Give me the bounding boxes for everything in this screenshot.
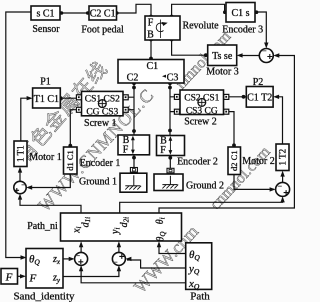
wire F to sand (18, 275, 21, 277)
svg-text:Encoder 2: Encoder 2 (177, 157, 218, 168)
wire motor1 to T1C1 (21, 98, 28, 141)
svg-text:Encoder 3: Encoder 3 (222, 25, 263, 36)
wire sensor feedback left edge (6, 12, 31, 258)
wire box C3 net down branch2 (170, 83, 175, 136)
svg-text:C2: C2 (127, 73, 139, 84)
wire screw1 CG to encoder1 (70, 110, 76, 146)
svg-text:C3: C3 (167, 73, 179, 84)
svg-text:P1: P1 (40, 77, 51, 88)
summing junction motor2 (276, 182, 290, 196)
svg-text:Screw 1: Screw 1 (84, 118, 117, 129)
svg-text:s C1: s C1 (36, 9, 54, 20)
svg-text:F: F (148, 18, 154, 29)
block motor 3 (206, 45, 239, 78)
svg-text:F: F (29, 273, 37, 285)
wire sensor to foot pedal (60, 12, 89, 14)
svg-text:d2 C1: d2 C1 (229, 150, 239, 171)
svg-text:Path_ni: Path_ni (27, 221, 58, 232)
wire encoder 3 to sum top (255, 12, 266, 44)
block path (186, 243, 212, 302)
svg-text:F: F (123, 145, 129, 156)
block F source (1, 269, 18, 285)
block ground 1 (79, 168, 147, 193)
wire path thetaQ to path_ni (159, 247, 186, 254)
wire foot pedal to revolute F (117, 4, 152, 15)
block revolute (145, 16, 219, 41)
svg-text:Foot pedal: Foot pedal (81, 25, 124, 36)
svg-text:Motor 2: Motor 2 (242, 156, 275, 167)
svg-text:B: B (147, 30, 154, 41)
wire revolute to box C1 (150, 40, 152, 60)
block T1 C1 (33, 88, 61, 108)
wire sand zx to sumA (63, 258, 73, 260)
block C1 T2 (246, 87, 273, 108)
block encoder 3 (222, 3, 263, 36)
wire box C2 net down branch1 (128, 83, 134, 136)
block BF2 prismatic (157, 135, 185, 156)
block ground 2 (154, 168, 224, 191)
wire encoder1 to sum1 (28, 174, 70, 188)
svg-text:C2 C1: C2 C1 (90, 9, 116, 20)
summing junction A (75, 252, 88, 265)
wire sum1 to motor 1 (19, 171, 21, 181)
svg-text:C1 T2: C1 T2 (247, 93, 272, 104)
block motor 1 (14, 141, 62, 167)
junction dots (60, 11, 64, 15)
wire sumA to path_ni (80, 246, 82, 252)
wire sumB to path_ni (118, 246, 120, 252)
svg-text:Revolute: Revolute (182, 21, 219, 32)
block path_ni (27, 213, 181, 242)
block BF1 prismatic (118, 135, 150, 156)
arrowheads (18, 43, 285, 279)
block screw 1 (76, 91, 128, 129)
summing junction motor1 (14, 181, 26, 193)
svg-text:C1 s: C1 s (231, 8, 249, 19)
block sand_identity (13, 249, 75, 302)
block encoder 1 (64, 147, 121, 174)
wire BF2 to ground2 (169, 156, 171, 169)
block screw 2 (174, 90, 228, 128)
svg-text:1 T2: 1 T2 (278, 149, 288, 166)
svg-text:Ground 2: Ground 2 (186, 181, 224, 192)
svg-text:CS3 CG: CS3 CG (186, 106, 218, 116)
svg-text:C1: C1 (146, 61, 158, 72)
svg-text:1 T1: 1 T1 (16, 145, 26, 162)
summing junction motor3 (259, 49, 273, 63)
wire path xQ to sumA (81, 268, 186, 283)
block encoder 2 (177, 147, 240, 175)
block sensor (31, 6, 60, 35)
wire T1C1 to screw1 (60, 97, 76, 99)
wire screw2 to C1T2 (229, 96, 247, 98)
summing junction B (112, 252, 125, 265)
svg-text:Sand_identity: Sand_identity (13, 291, 75, 302)
svg-text:d1 C1: d1 C1 (65, 150, 75, 171)
wire path_ni d1 to sum motor1 (20, 199, 81, 213)
wire sum top to motor 3 (242, 55, 260, 57)
wire path_ni d2 to sum motor2 (120, 202, 283, 214)
svg-text:Path: Path (190, 291, 210, 302)
svg-text:T1 C1: T1 C1 (34, 94, 59, 105)
svg-text:Ground 1: Ground 1 (79, 177, 117, 188)
svg-text:Screw 2: Screw 2 (184, 117, 217, 128)
svg-text:Sensor: Sensor (32, 24, 60, 35)
block motor 2 (242, 144, 289, 171)
wire encoder2 to sum motor2 (234, 175, 274, 190)
wire BF1 to ground1 (133, 156, 135, 168)
block foot pedal (81, 6, 124, 36)
svg-text:Ts se: Ts se (212, 51, 233, 62)
wire revolute B to encoder 3 (172, 4, 226, 16)
wire motor2 to C1T2 (278, 97, 283, 144)
svg-text:F: F (160, 145, 166, 156)
svg-text:Motor 1: Motor 1 (29, 152, 62, 163)
svg-text:F: F (5, 272, 13, 284)
wire sum to motor2 (282, 176, 284, 183)
svg-text:Motor 3: Motor 3 (206, 67, 239, 78)
block body C1 C2 C3 (118, 60, 184, 84)
wire screw2 CG to encoder2 (229, 112, 234, 145)
wire sand zy to sumB (63, 268, 119, 277)
wire path yQ to sumB (127, 260, 186, 268)
svg-text:Encoder 1: Encoder 1 (80, 158, 121, 169)
wire path_ni theta to right edge to sum top (159, 56, 294, 214)
svg-text:CG CS3: CG CS3 (86, 108, 118, 118)
wire revolute to motor 3 (172, 40, 208, 55)
